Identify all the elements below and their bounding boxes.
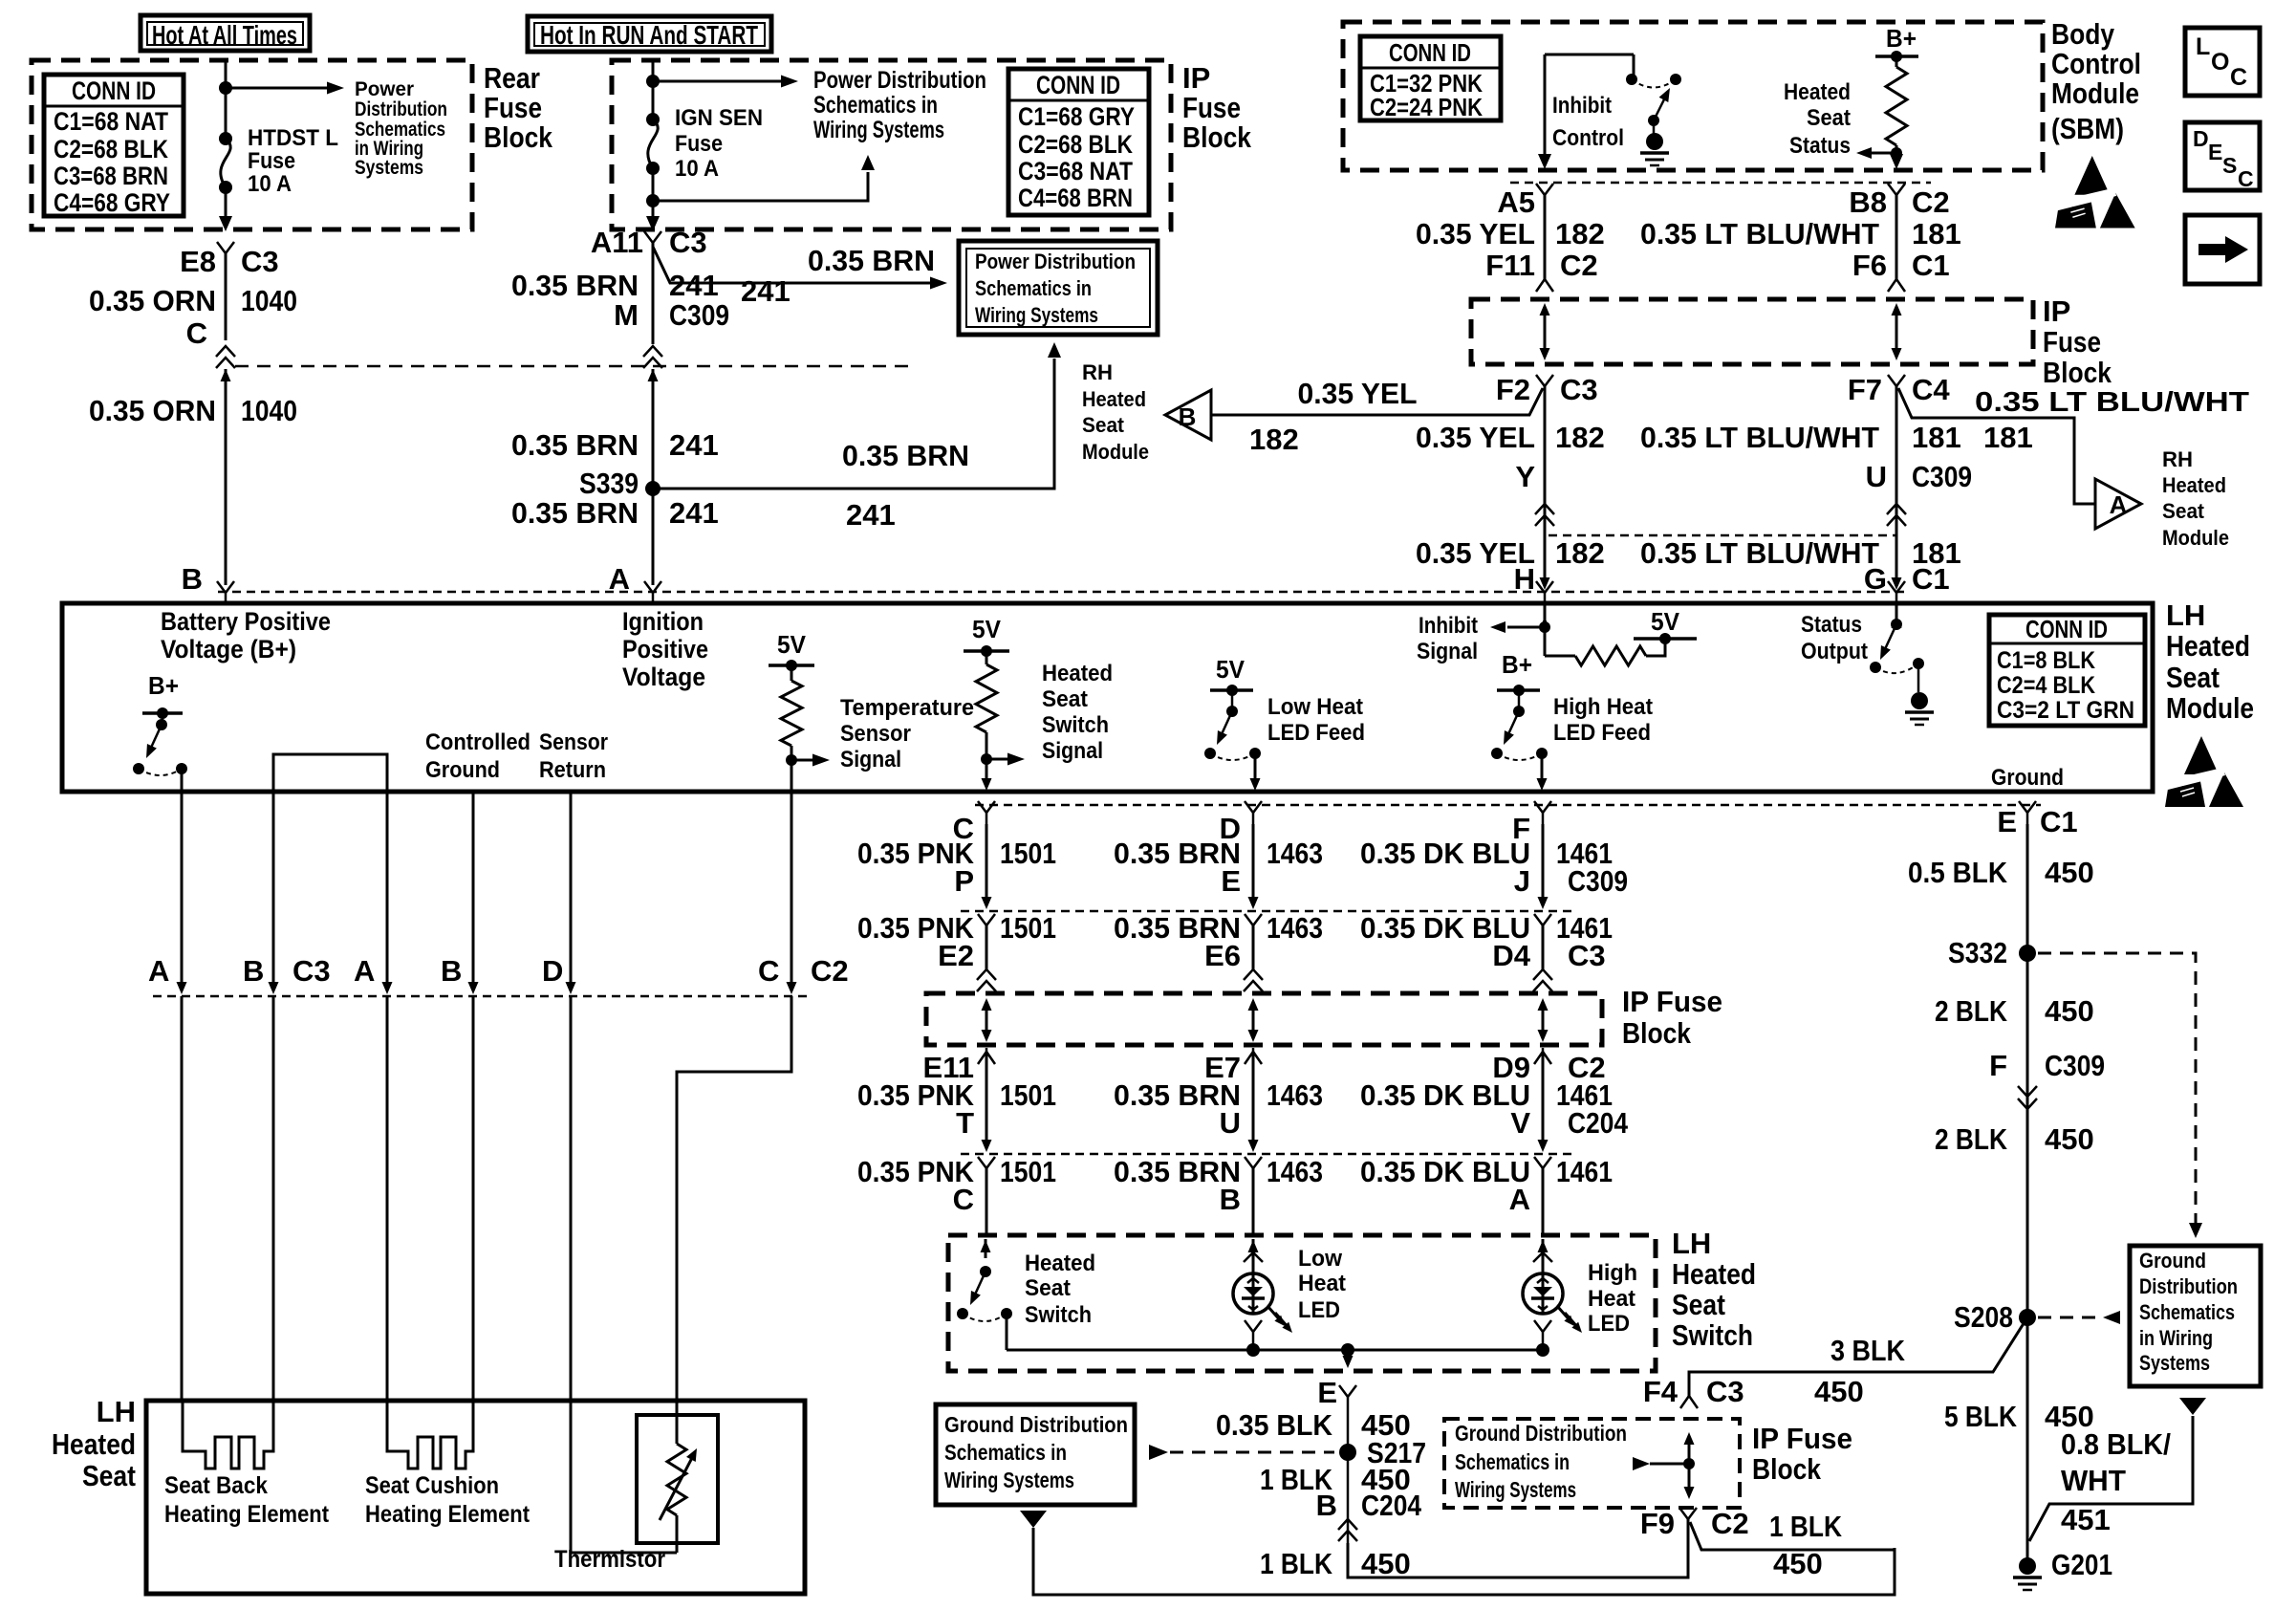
svg-text:CONN ID: CONN ID — [72, 76, 156, 105]
connector Y at F7 — [1888, 375, 1905, 386]
svg-text:C1: C1 — [2040, 805, 2078, 838]
svg-text:Fuse: Fuse — [484, 91, 542, 124]
arrow Inhibit Signal — [1507, 626, 1545, 629]
svg-text:1 BLK: 1 BLK — [1769, 1510, 1843, 1543]
svg-text:E: E — [1997, 805, 2017, 838]
svg-text:C2: C2 — [1912, 185, 1950, 219]
switch arm (BCM inhibit) — [1654, 99, 1664, 120]
ESD symbol (module) — [2165, 736, 2243, 807]
svg-text:5V: 5V — [972, 615, 1002, 643]
connector male F4 — [1680, 1396, 1698, 1408]
svg-text:B+: B+ — [148, 671, 179, 700]
svg-text:B: B — [1316, 1489, 1337, 1522]
svg-text:Systems: Systems — [355, 157, 423, 179]
svg-text:0.35 BRN: 0.35 BRN — [511, 496, 639, 530]
svg-text:Battery Positive: Battery Positive — [161, 607, 331, 636]
Ground Distribution solid box (left) — [936, 1404, 1135, 1505]
svg-text:High: High — [1588, 1260, 1637, 1286]
IP Fuse Block dashed box (top) — [612, 60, 1171, 229]
wire F7 down — [1895, 386, 1898, 585]
fuse element arrows — [986, 1002, 988, 1038]
connector Y module pin A — [644, 581, 661, 593]
wire to box edge with arrow — [652, 201, 655, 218]
svg-text:Sensor: Sensor — [840, 721, 911, 747]
wire D to seat — [571, 996, 677, 1553]
svg-text:S332: S332 — [1948, 936, 2007, 969]
svg-text:Voltage (B+): Voltage (B+) — [161, 635, 296, 664]
svg-text:A: A — [354, 954, 375, 988]
fuse element arrows — [1252, 1002, 1255, 1038]
status switch arm — [1885, 624, 1896, 649]
svg-text:Heated: Heated — [1042, 661, 1113, 686]
low heat LED connector Y — [1245, 1320, 1262, 1332]
label box "Hot At All Times" — [141, 15, 310, 51]
svg-text:C3: C3 — [1560, 373, 1598, 406]
svg-text:Inhibit: Inhibit — [1552, 93, 1612, 119]
svg-text:in Wiring: in Wiring — [2139, 1326, 2213, 1350]
svg-text:182: 182 — [1555, 421, 1605, 454]
svg-text:High Heat: High Heat — [1553, 694, 1653, 720]
wire ORN 1040 upper — [225, 253, 227, 340]
svg-text:Control: Control — [1552, 125, 1624, 151]
wire ground main — [2026, 824, 2029, 1558]
svg-text:0.35 LT BLU/WHT: 0.35 LT BLU/WHT — [1640, 217, 1879, 250]
svg-text:L: L — [2196, 33, 2210, 60]
svg-text:Ground: Ground — [425, 757, 500, 783]
connector Y below dotted line 3 — [978, 1157, 995, 1168]
svg-text:C1: C1 — [1912, 562, 1950, 596]
svg-text:0.35 YEL: 0.35 YEL — [1416, 421, 1535, 454]
connector Y module pin C — [978, 801, 995, 813]
wire A5 to fuse block — [1544, 195, 1547, 279]
svg-text:Body: Body — [2051, 17, 2115, 51]
connector Y below dotted line 2 — [1534, 914, 1551, 925]
triangle pointer A — [2095, 479, 2141, 529]
connector Y module pin E — [2019, 801, 2036, 813]
svg-text:Ground: Ground — [1991, 765, 2064, 791]
svg-text:450: 450 — [2045, 856, 2094, 889]
svg-text:0.35 YEL: 0.35 YEL — [1298, 377, 1418, 410]
heated seat switch — [985, 1239, 987, 1258]
svg-text:1040: 1040 — [241, 284, 297, 317]
svg-text:CONN ID: CONN ID — [1389, 38, 1471, 67]
connector male at F6 — [1888, 279, 1905, 292]
svg-text:Seat: Seat — [1672, 1288, 1725, 1321]
status switch ground — [1917, 664, 1920, 692]
wire A to seat — [181, 996, 184, 1401]
svg-text:E: E — [1221, 864, 1241, 898]
connector C chevron — [216, 346, 235, 368]
svg-text:C2=24 PNK: C2=24 PNK — [1370, 93, 1483, 121]
svg-text:Power Distribution: Power Distribution — [813, 67, 986, 94]
svg-text:U: U — [1866, 460, 1887, 493]
connector Y at F2 — [1536, 375, 1553, 386]
svg-text:241: 241 — [669, 269, 719, 302]
svg-text:(SBM): (SBM) — [2051, 112, 2124, 145]
wire BRN down from A11 — [652, 243, 655, 344]
direction arrow up (BRN) — [652, 369, 655, 382]
wire pin A inside module — [181, 769, 184, 792]
svg-text:C: C — [953, 1183, 974, 1216]
wire F2 down — [1544, 386, 1547, 585]
splice S208 — [2019, 1309, 2036, 1326]
svg-text:RH: RH — [2162, 447, 2193, 471]
svg-text:C2: C2 — [1560, 249, 1598, 282]
arrow into pin C — [982, 778, 992, 791]
svg-text:Heated: Heated — [2166, 629, 2250, 663]
svg-text:F9: F9 — [1640, 1507, 1675, 1540]
svg-text:C2=4 BLK: C2=4 BLK — [1997, 672, 2095, 699]
svg-text:F7: F7 — [1848, 373, 1882, 406]
high heat LED connector Y — [1534, 1320, 1551, 1332]
wire 0.35 PNK segment 3 — [986, 1052, 988, 1147]
svg-text:10 A: 10 A — [675, 156, 719, 182]
svg-text:C2=68 BLK: C2=68 BLK — [54, 135, 168, 163]
svg-text:C204: C204 — [1361, 1489, 1422, 1522]
svg-text:Status: Status — [1789, 133, 1851, 159]
triangle pointer B — [1165, 390, 1211, 440]
svg-text:1501: 1501 — [1000, 837, 1056, 870]
svg-text:1040: 1040 — [241, 394, 297, 427]
svg-text:Heated: Heated — [1025, 1251, 1095, 1276]
connector Y module pin B — [217, 581, 234, 593]
svg-text:LED Feed: LED Feed — [1267, 720, 1365, 746]
svg-text:B: B — [441, 954, 462, 988]
svg-text:Signal: Signal — [1042, 738, 1103, 764]
direction arrow into connector 3 — [1248, 1140, 1259, 1152]
svg-text:1461: 1461 — [1556, 1155, 1613, 1188]
svg-text:IGN SEN: IGN SEN — [675, 105, 763, 131]
svg-text:0.35 ORN: 0.35 ORN — [89, 284, 216, 317]
svg-text:C: C — [2238, 166, 2254, 191]
wire from fuse block top — [225, 60, 227, 139]
status tap arrow left — [1891, 147, 1902, 159]
svg-text:J: J — [1514, 864, 1530, 898]
switch pivot to ground — [1648, 115, 1659, 126]
Power Distribution Schematics solid box — [959, 241, 1158, 335]
svg-text:451: 451 — [2061, 1503, 2111, 1536]
svg-text:IP Fuse: IP Fuse — [1622, 985, 1722, 1018]
svg-text:LH: LH — [2166, 598, 2205, 632]
arrow into pin A5 — [1538, 154, 1551, 169]
svg-text:Distribution: Distribution — [2139, 1274, 2238, 1298]
svg-text:Seat: Seat — [1807, 105, 1851, 131]
S332 dashed pointer — [2038, 953, 2196, 1224]
svg-text:450: 450 — [2045, 1122, 2094, 1156]
svg-text:C3: C3 — [1706, 1375, 1744, 1408]
svg-text:Signal: Signal — [1417, 639, 1478, 664]
svg-text:B: B — [243, 954, 264, 988]
connector Y module pin F — [1534, 801, 1551, 813]
svg-text:C: C — [2230, 64, 2247, 91]
status output wire — [1895, 603, 1898, 624]
inhibit signal wire + junction — [1544, 603, 1547, 656]
B+ terminal bar — [1875, 54, 1918, 58]
wire B2 to seat — [472, 996, 475, 1401]
svg-text:B: B — [1220, 1183, 1241, 1216]
svg-text:181: 181 — [1983, 421, 2033, 454]
resistor temp sensor — [791, 665, 793, 681]
svg-text:S339: S339 — [579, 467, 639, 500]
svg-text:Block: Block — [484, 120, 553, 154]
svg-text:LED Feed: LED Feed — [1553, 720, 1651, 746]
svg-text:Heat: Heat — [1298, 1271, 1346, 1296]
connector dotted line below BCM — [1510, 182, 1931, 185]
Ground Distribution dashed box (middle) — [1444, 1419, 1740, 1508]
connector C204 chevron — [1338, 1519, 1357, 1541]
svg-text:LH: LH — [97, 1395, 136, 1428]
wire seat harness — [181, 792, 184, 987]
svg-text:C: C — [186, 316, 207, 350]
low heat LED — [1233, 1273, 1273, 1314]
svg-text:5V: 5V — [1216, 655, 1245, 684]
svg-text:Positive: Positive — [622, 635, 708, 664]
svg-text:Heated: Heated — [1082, 387, 1146, 411]
svg-text:Heat: Heat — [1588, 1286, 1635, 1312]
svg-text:5 BLK: 5 BLK — [1944, 1400, 2018, 1433]
connector Y pin E (switch) — [1339, 1385, 1356, 1397]
resistor heated seat status — [1895, 56, 1898, 67]
junction node — [646, 194, 660, 207]
wire B to seat — [272, 996, 275, 1401]
label box "Hot In RUN And START" — [528, 16, 771, 52]
svg-text:C309: C309 — [669, 298, 729, 332]
fuse element arrows (B8 col) — [1895, 308, 1898, 356]
thermistor element — [676, 1415, 679, 1444]
wire 0.35 DK BLU segment 4 — [1542, 1168, 1545, 1233]
wire seat harness — [472, 792, 475, 987]
svg-text:M: M — [614, 298, 639, 332]
direction arrow up — [225, 369, 227, 382]
next-page arrow box — [2185, 215, 2260, 284]
thermistor box — [637, 1415, 718, 1543]
svg-text:F6: F6 — [1852, 249, 1887, 282]
svg-text:C309: C309 — [1912, 460, 1972, 493]
direction arrow at connector — [382, 982, 393, 994]
svg-text:182: 182 — [1555, 217, 1605, 250]
connector dotted line module bottom — [975, 804, 2041, 807]
svg-text:2 BLK: 2 BLK — [1935, 994, 2008, 1028]
wire BRN 241 mid — [652, 369, 655, 585]
splice S332 — [2019, 945, 2036, 962]
svg-text:450: 450 — [1814, 1375, 1864, 1408]
CONN ID table (BCM) — [1360, 36, 1501, 120]
internal bridge rect — [273, 754, 387, 792]
svg-text:0.35 YEL: 0.35 YEL — [1416, 217, 1535, 250]
svg-text:0.35 LT BLU/WHT: 0.35 LT BLU/WHT — [1975, 387, 2249, 418]
svg-text:0.35 DK BLU: 0.35 DK BLU — [1360, 1078, 1530, 1112]
wire 3 BLK 450 — [1689, 1317, 2027, 1396]
svg-text:IP: IP — [2043, 294, 2070, 328]
svg-text:Rear: Rear — [484, 61, 540, 95]
svg-text:Heated: Heated — [2162, 473, 2226, 497]
LH Heated Seat box — [146, 1401, 805, 1594]
svg-text:Return: Return — [539, 757, 606, 783]
svg-text:B8: B8 — [1849, 185, 1887, 219]
svg-text:D4: D4 — [1492, 939, 1530, 972]
svg-text:B+: B+ — [1886, 24, 1917, 53]
ground symbol (BCM) — [1646, 133, 1663, 150]
connector male below fuse block — [1542, 1048, 1545, 1052]
svg-text:Ignition: Ignition — [622, 607, 704, 636]
svg-text:Wiring Systems: Wiring Systems — [975, 303, 1098, 327]
svg-text:Y: Y — [1515, 460, 1535, 493]
wire IGN SEN feed — [652, 60, 655, 120]
svg-text:241: 241 — [741, 274, 791, 308]
connector Y F9 — [1679, 1508, 1697, 1519]
svg-text:241: 241 — [669, 428, 719, 462]
svg-text:Seat: Seat — [2166, 661, 2220, 694]
S339 branch wire to power dist — [653, 359, 1054, 489]
svg-text:Block: Block — [1182, 120, 1252, 154]
fuse IGN SEN 10A — [646, 113, 660, 126]
svg-text:241: 241 — [846, 498, 896, 532]
svg-text:E6: E6 — [1204, 939, 1241, 972]
pointer triangle below box — [1020, 1511, 1047, 1528]
svg-text:241: 241 — [669, 496, 719, 530]
svg-text:5V: 5V — [777, 630, 807, 659]
B+ bar and switch — [142, 711, 183, 715]
svg-text:C: C — [758, 954, 779, 988]
direction arrow into connector — [982, 897, 992, 909]
wire seat harness — [386, 792, 389, 987]
svg-text:Output: Output — [1801, 639, 1868, 664]
svg-text:Distribution: Distribution — [355, 98, 447, 120]
svg-text:0.8 BLK/: 0.8 BLK/ — [2061, 1427, 2171, 1461]
svg-text:E2: E2 — [938, 939, 974, 972]
connector dashed line (C309 left) — [235, 365, 908, 368]
direction arrow at connector — [468, 982, 479, 994]
wire 0.35 BRN segment 2 — [1252, 924, 1255, 969]
svg-text:450: 450 — [2045, 994, 2094, 1028]
svg-text:C1=8 BLK: C1=8 BLK — [1997, 647, 2095, 674]
svg-text:G201: G201 — [2051, 1548, 2112, 1581]
svg-text:0.35 BRN: 0.35 BRN — [808, 244, 935, 277]
wire 0.35 BRN segment 4 — [1252, 1168, 1255, 1233]
connector Y below dotted line 3 — [1534, 1157, 1551, 1168]
connector C309 chevron (BRN) — [643, 346, 662, 368]
arrow to Power Distribution (left) — [226, 87, 327, 90]
svg-text:C2: C2 — [1568, 1051, 1606, 1084]
wire 0.35 BRN segment 1 — [1252, 824, 1255, 897]
svg-text:Wiring Systems: Wiring Systems — [1455, 1477, 1576, 1502]
svg-text:Control: Control — [2051, 47, 2141, 80]
wire 0.35 DK BLU segment 1 — [1542, 824, 1545, 897]
svg-text:A11: A11 — [591, 226, 643, 259]
svg-text:C1: C1 — [1912, 249, 1950, 282]
svg-text:C3: C3 — [1568, 939, 1606, 972]
connector dashed line (seat connector) — [153, 995, 812, 998]
svg-text:Seat: Seat — [1042, 686, 1088, 712]
wire 0.35 DK BLU segment 3 — [1542, 1052, 1545, 1147]
svg-text:C3: C3 — [292, 954, 331, 988]
svg-text:Ground Distribution: Ground Distribution — [944, 1412, 1128, 1437]
arrow into pin B8 — [1890, 154, 1903, 169]
svg-text:WHT: WHT — [2061, 1464, 2126, 1497]
connector Y at A5 — [1536, 184, 1553, 195]
svg-text:Fuse: Fuse — [248, 148, 295, 174]
svg-text:C3=68 NAT: C3=68 NAT — [1018, 157, 1133, 185]
svg-text:E: E — [1317, 1376, 1337, 1409]
svg-text:Ground: Ground — [2139, 1249, 2206, 1273]
wire F9 to ground rail — [1690, 1522, 1895, 1550]
svg-text:Block: Block — [1622, 1016, 1692, 1050]
pointer arrow to fuse block — [1633, 1457, 1650, 1470]
svg-text:0.35 DK BLU: 0.35 DK BLU — [1360, 1155, 1530, 1188]
connector male below fuse block — [1252, 1048, 1255, 1052]
svg-text:Wiring Systems: Wiring Systems — [813, 117, 944, 143]
svg-text:Module: Module — [1082, 440, 1149, 464]
svg-text:C204: C204 — [1568, 1106, 1629, 1140]
5V bar (temp) — [769, 664, 814, 667]
high heat LED feed switch — [1497, 688, 1540, 692]
svg-text:Block: Block — [2043, 356, 2112, 389]
svg-text:2 BLK: 2 BLK — [1935, 1122, 2008, 1156]
svg-text:0.35 LT BLU/WHT: 0.35 LT BLU/WHT — [1640, 421, 1879, 454]
svg-text:Fuse: Fuse — [1182, 91, 1241, 124]
svg-text:0.35 LT BLU/WHT: 0.35 LT BLU/WHT — [1640, 536, 1879, 570]
svg-text:Module: Module — [2166, 691, 2254, 725]
connector dotted line 2 — [961, 910, 1576, 913]
branch to power dist box — [653, 247, 930, 283]
connector Y below dotted line 2 — [978, 914, 995, 925]
svg-text:450: 450 — [1361, 1547, 1411, 1580]
svg-text:0.35 BRN: 0.35 BRN — [511, 428, 639, 462]
svg-text:Seat Cushion: Seat Cushion — [365, 1472, 499, 1499]
svg-text:Schematics: Schematics — [2139, 1300, 2235, 1324]
svg-text:Seat: Seat — [1082, 413, 1125, 437]
svg-text:Switch: Switch — [1672, 1318, 1753, 1352]
svg-text:Seat Back: Seat Back — [164, 1472, 268, 1499]
svg-text:0.35 BLK: 0.35 BLK — [1216, 1408, 1333, 1442]
connector Y at B8 — [1888, 184, 1905, 195]
wire to switch contact — [1633, 54, 1635, 76]
svg-text:IP Fuse: IP Fuse — [1752, 1422, 1852, 1455]
svg-text:Heating Element: Heating Element — [365, 1501, 531, 1528]
svg-text:C2: C2 — [811, 954, 849, 988]
svg-text:Controlled: Controlled — [425, 729, 531, 755]
wire 0.35 DK BLU segment 2 — [1542, 924, 1545, 969]
svg-text:Seat: Seat — [1025, 1275, 1071, 1301]
svg-text:V: V — [1510, 1106, 1530, 1140]
switch arc dashed — [1632, 79, 1676, 88]
svg-text:1463: 1463 — [1267, 911, 1323, 945]
wire 0.35 PNK segment 4 — [986, 1168, 988, 1233]
connector Y module pin D — [1245, 801, 1262, 813]
wire seat harness — [570, 792, 573, 987]
fuse element arrows (A5 col) — [1544, 308, 1547, 356]
svg-text:IP: IP — [1182, 61, 1210, 95]
low heat LED wire in — [1252, 1239, 1255, 1273]
wire ORN 1040 lower — [225, 369, 227, 585]
connector dotted line module top — [218, 591, 1907, 594]
wire inhibit control — [1545, 54, 1634, 159]
svg-text:A: A — [148, 954, 169, 988]
Ground Distribution solid box (right) — [2130, 1246, 2261, 1386]
svg-text:Switch: Switch — [1025, 1302, 1092, 1328]
wire seat harness — [272, 792, 275, 987]
svg-text:Low: Low — [1298, 1246, 1342, 1272]
svg-text:0.35 BRN: 0.35 BRN — [511, 269, 639, 302]
svg-text:C3: C3 — [669, 226, 707, 259]
svg-text:Low Heat: Low Heat — [1267, 694, 1363, 720]
connector C309 chevron (BLU) — [1887, 504, 1906, 526]
ground path from pointer — [1033, 1528, 1895, 1595]
splice S339 — [645, 481, 661, 496]
switch contact nodes — [1626, 74, 1637, 85]
CONN ID table (IP Fuse Block) — [1008, 69, 1149, 215]
svg-text:1501: 1501 — [1000, 911, 1056, 945]
